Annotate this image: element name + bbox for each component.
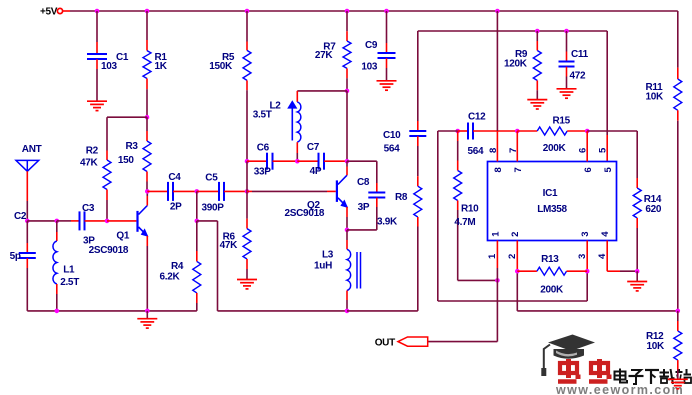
wire C12 node to pin3 [438,131,587,301]
svg-text:47K: 47K [220,240,239,251]
svg-text:6: 6 [578,148,589,153]
pin 3 [577,232,591,272]
svg-text:5: 5 [603,167,614,173]
resistor R12 [646,311,682,379]
resistor R5 [209,50,251,80]
svg-text:3: 3 [580,232,591,237]
ground C11 [557,89,577,98]
svg-text:150: 150 [118,155,135,166]
capacitor C1 [87,52,129,72]
svg-text:7: 7 [513,167,524,172]
transistor Q2 [285,175,349,219]
svg-text:3.9K: 3.9K [377,216,398,227]
svg-text:2P: 2P [170,201,182,212]
wire rail2 to C10 [417,31,419,131]
ground main [137,319,157,328]
node pin3/R13 [585,269,590,274]
svg-text:ANT: ANT [22,144,42,155]
node pin7/R15 [515,129,520,134]
svg-text:2: 2 [507,254,518,259]
node emitter Q2/C8/L3 [345,228,350,233]
svg-text:120K: 120K [504,58,528,69]
wire R4 node to bottom rail [197,221,347,311]
node R11/R12/pin2wire [676,309,681,314]
svg-text:C8: C8 [357,177,370,188]
resistor R7 [315,41,351,68]
node L3 bottom [345,309,350,314]
resistor R11 [646,79,682,110]
svg-text:620: 620 [645,204,662,215]
svg-text:10K: 10K [646,91,665,102]
node rail-pin8 [495,9,500,14]
wire R7 node to C7 node [346,91,348,161]
wire C8 to emitter node [347,198,377,230]
wire Q1 collector [146,191,148,205]
wire rail to C1 [96,11,98,54]
ground C9 [377,81,397,90]
ground R6 [237,280,257,289]
node rail-C9 [384,9,389,14]
node collector Q1/R3/C4 [145,189,150,194]
svg-text:103: 103 [361,62,378,73]
svg-text:47K: 47K [80,157,99,168]
svg-text:3: 3 [577,254,588,259]
svg-text:L1: L1 [63,265,75,276]
wire R9 to ground [536,81,538,100]
capacitor C8 [357,177,385,213]
svg-text:C1: C1 [116,52,129,63]
node rail-R1 [145,9,150,14]
svg-text:C11: C11 [571,49,589,60]
resistor R10 [454,131,479,280]
wire node A to R2 [107,117,147,150]
svg-text:R3: R3 [126,141,139,152]
svg-text:8: 8 [493,167,504,172]
resistor R3 [118,117,151,191]
svg-text:33P: 33P [254,167,272,178]
svg-text:6: 6 [583,167,594,172]
wire bottom rail right [347,310,418,312]
wire to ground Q1 [146,311,148,319]
node L1 top [55,219,60,224]
wire rail2 to R9 [536,31,538,51]
capacitor C11 [559,31,589,89]
resistor R13 [517,254,587,296]
svg-text:C3: C3 [82,203,95,214]
svg-text:R8: R8 [395,192,408,203]
wire rail to R5 [246,11,248,50]
wire pin4 gnd lead [636,271,638,281]
svg-text:27K: 27K [315,50,334,61]
svg-text:2SC9018: 2SC9018 [285,208,325,219]
pin 4 [597,231,637,271]
wire R2 to base node [106,200,108,221]
power terminal +5V [40,6,70,17]
svg-text:564: 564 [468,146,485,157]
wire C7 node to C8 [347,161,377,192]
resistor R6 [220,191,251,279]
svg-text:390P: 390P [202,203,225,214]
node C5/R5/R6 [245,189,250,194]
inductor L3 [314,230,361,311]
svg-text:1K: 1K [155,61,168,72]
svg-text:1: 1 [487,253,498,259]
svg-text:+5V: +5V [40,6,58,17]
node pin6/R14 [585,129,590,134]
wire R7 to L2 node [346,68,348,91]
node rail-C1 [95,9,100,14]
capacitor C4 [147,172,197,212]
node R7/L2 [345,89,350,94]
resistor R9 [504,49,541,81]
wire R15 to R14 [587,130,637,132]
ground R12 [668,379,688,388]
wire R1 to node A [146,79,148,118]
pin 8 [488,11,504,173]
svg-text:564: 564 [384,143,401,154]
svg-text:R13: R13 [541,254,559,265]
node pin1/R10/OUT [495,278,500,283]
svg-text:OUT: OUT [375,338,395,349]
svg-text:1: 1 [490,231,501,237]
transistor Q1 [89,206,149,257]
svg-text:2SC9018: 2SC9018 [89,245,129,256]
svg-text:Q1: Q1 [116,230,129,241]
svg-text:1uH: 1uH [314,260,332,271]
node C6/L2/C7 [295,159,300,164]
node rail-R7 [345,9,350,14]
wire pin2 to R12 node [517,271,678,311]
resistor R15 [517,115,587,154]
wire R8 to bottom rail [417,217,419,311]
capacitor C2 [10,211,36,311]
svg-text:R15: R15 [553,115,571,126]
node C7/Q2 collector [345,159,350,164]
wire R5 to C6 node [246,80,248,161]
node C4/C5 [195,189,200,194]
svg-text:200K: 200K [540,285,564,296]
node L1 bottom [55,309,60,314]
pin 6 [578,131,595,173]
capacitor C3 [80,203,108,247]
capacitor C7 [297,142,347,177]
svg-text:C10: C10 [383,130,401,141]
resistor R4 [160,221,201,311]
port OUT [375,337,428,349]
wire pin1 to OUT [428,280,498,341]
svg-text:C2: C2 [14,211,27,222]
capacitor C12 [458,112,518,157]
svg-text:8: 8 [488,148,499,153]
wire Q2 collector [346,161,348,175]
svg-text:LM358: LM358 [537,204,567,215]
svg-text:4: 4 [600,231,611,237]
svg-text:L3: L3 [322,249,334,260]
svg-text:472: 472 [570,70,587,81]
wire ant node to L1 [27,220,57,222]
resistor R1 [143,51,168,79]
wire Q1 emitter [146,236,148,311]
inductor L2 [253,91,301,161]
svg-text:C9: C9 [365,40,378,51]
ground pin4 [627,282,647,291]
wire C6 node to C5 node [246,161,248,191]
pin 1 [487,231,501,281]
node pin4 ground [635,269,640,274]
svg-text:4: 4 [597,253,608,259]
wire 2nd rail [418,30,607,32]
node C12/R10 [455,129,460,134]
wire rail to R1 [146,11,148,51]
inductor L1 [53,221,79,311]
wire C1 to ground [96,59,98,101]
wire rail to R11 [677,11,679,79]
wire L1 node to C3 [57,220,80,222]
wire Q2 emitter [346,207,348,230]
svg-text:IC1: IC1 [543,188,558,199]
node C3/R2/base [105,219,110,224]
svg-text:C5: C5 [205,173,218,184]
node rail-R5 [245,9,250,14]
node pin2/R13 [515,269,520,274]
wire base Q2 [247,190,336,192]
op-amp IC1 [488,162,617,241]
node R4 top [195,219,200,224]
capacitor C10 [383,130,426,154]
svg-text:3P: 3P [358,202,370,213]
svg-text:5: 5 [598,147,609,153]
wire rail to R7 [346,11,348,41]
node emitter ground [145,309,150,314]
wire L2 top link [297,90,347,92]
svg-text:200K: 200K [543,143,567,154]
logo text dianzi xiazaizhan [615,369,692,385]
resistor R8 [377,186,422,227]
ground C1 [87,101,107,110]
resistor R2 [80,146,111,200]
resistor R14 [633,131,662,271]
svg-text:4P: 4P [310,166,322,177]
svg-text:10K: 10K [647,341,666,352]
wire +5V rail [70,10,678,12]
wire bottom-left rail [27,310,197,312]
node antenna/C2 [25,219,30,224]
wire antenna down [26,171,28,221]
capacitor C6 [247,143,297,178]
svg-text:www.eeworm.com: www.eeworm.com [555,383,684,395]
antenna ANT [16,144,42,172]
wire rail2 to pin5 [606,31,608,162]
wire C10 to R8 [417,136,419,186]
wire base Q1 [107,220,136,222]
pin 7 [508,131,524,173]
pin 5 [598,147,615,173]
svg-text:4.7M: 4.7M [454,217,475,228]
wire C4C5 node down [196,191,198,221]
pin 2 [507,232,521,272]
logo bug characters [558,359,612,382]
svg-text:C7: C7 [307,142,320,153]
svg-text:C4: C4 [168,172,181,183]
wire R11 down [677,110,679,311]
svg-text:3.5T: 3.5T [253,109,272,120]
node R5/C6 [245,159,250,164]
node rail2-R9 [535,29,540,34]
capacitor C5 [197,173,247,214]
svg-text:2: 2 [510,232,521,237]
svg-text:R2: R2 [86,146,99,157]
svg-text:7: 7 [508,148,519,153]
svg-text:C12: C12 [468,112,486,123]
svg-text:103: 103 [101,61,118,72]
logo url www.eeworm.com [555,383,684,395]
svg-text:R10: R10 [461,204,479,215]
svg-text:5p: 5p [10,251,21,262]
svg-text:C6: C6 [257,143,270,154]
wire R10 to pin1 node [458,279,498,281]
node A R1/R2/R3 [145,115,150,120]
svg-text:150K: 150K [209,61,233,72]
svg-text:6.2K: 6.2K [160,271,181,282]
logo graduation cap [541,335,595,377]
svg-text:2.5T: 2.5T [60,277,79,288]
node rail2-C11 [564,29,569,34]
capacitor C9 [361,11,395,81]
ground R9 [527,100,547,109]
